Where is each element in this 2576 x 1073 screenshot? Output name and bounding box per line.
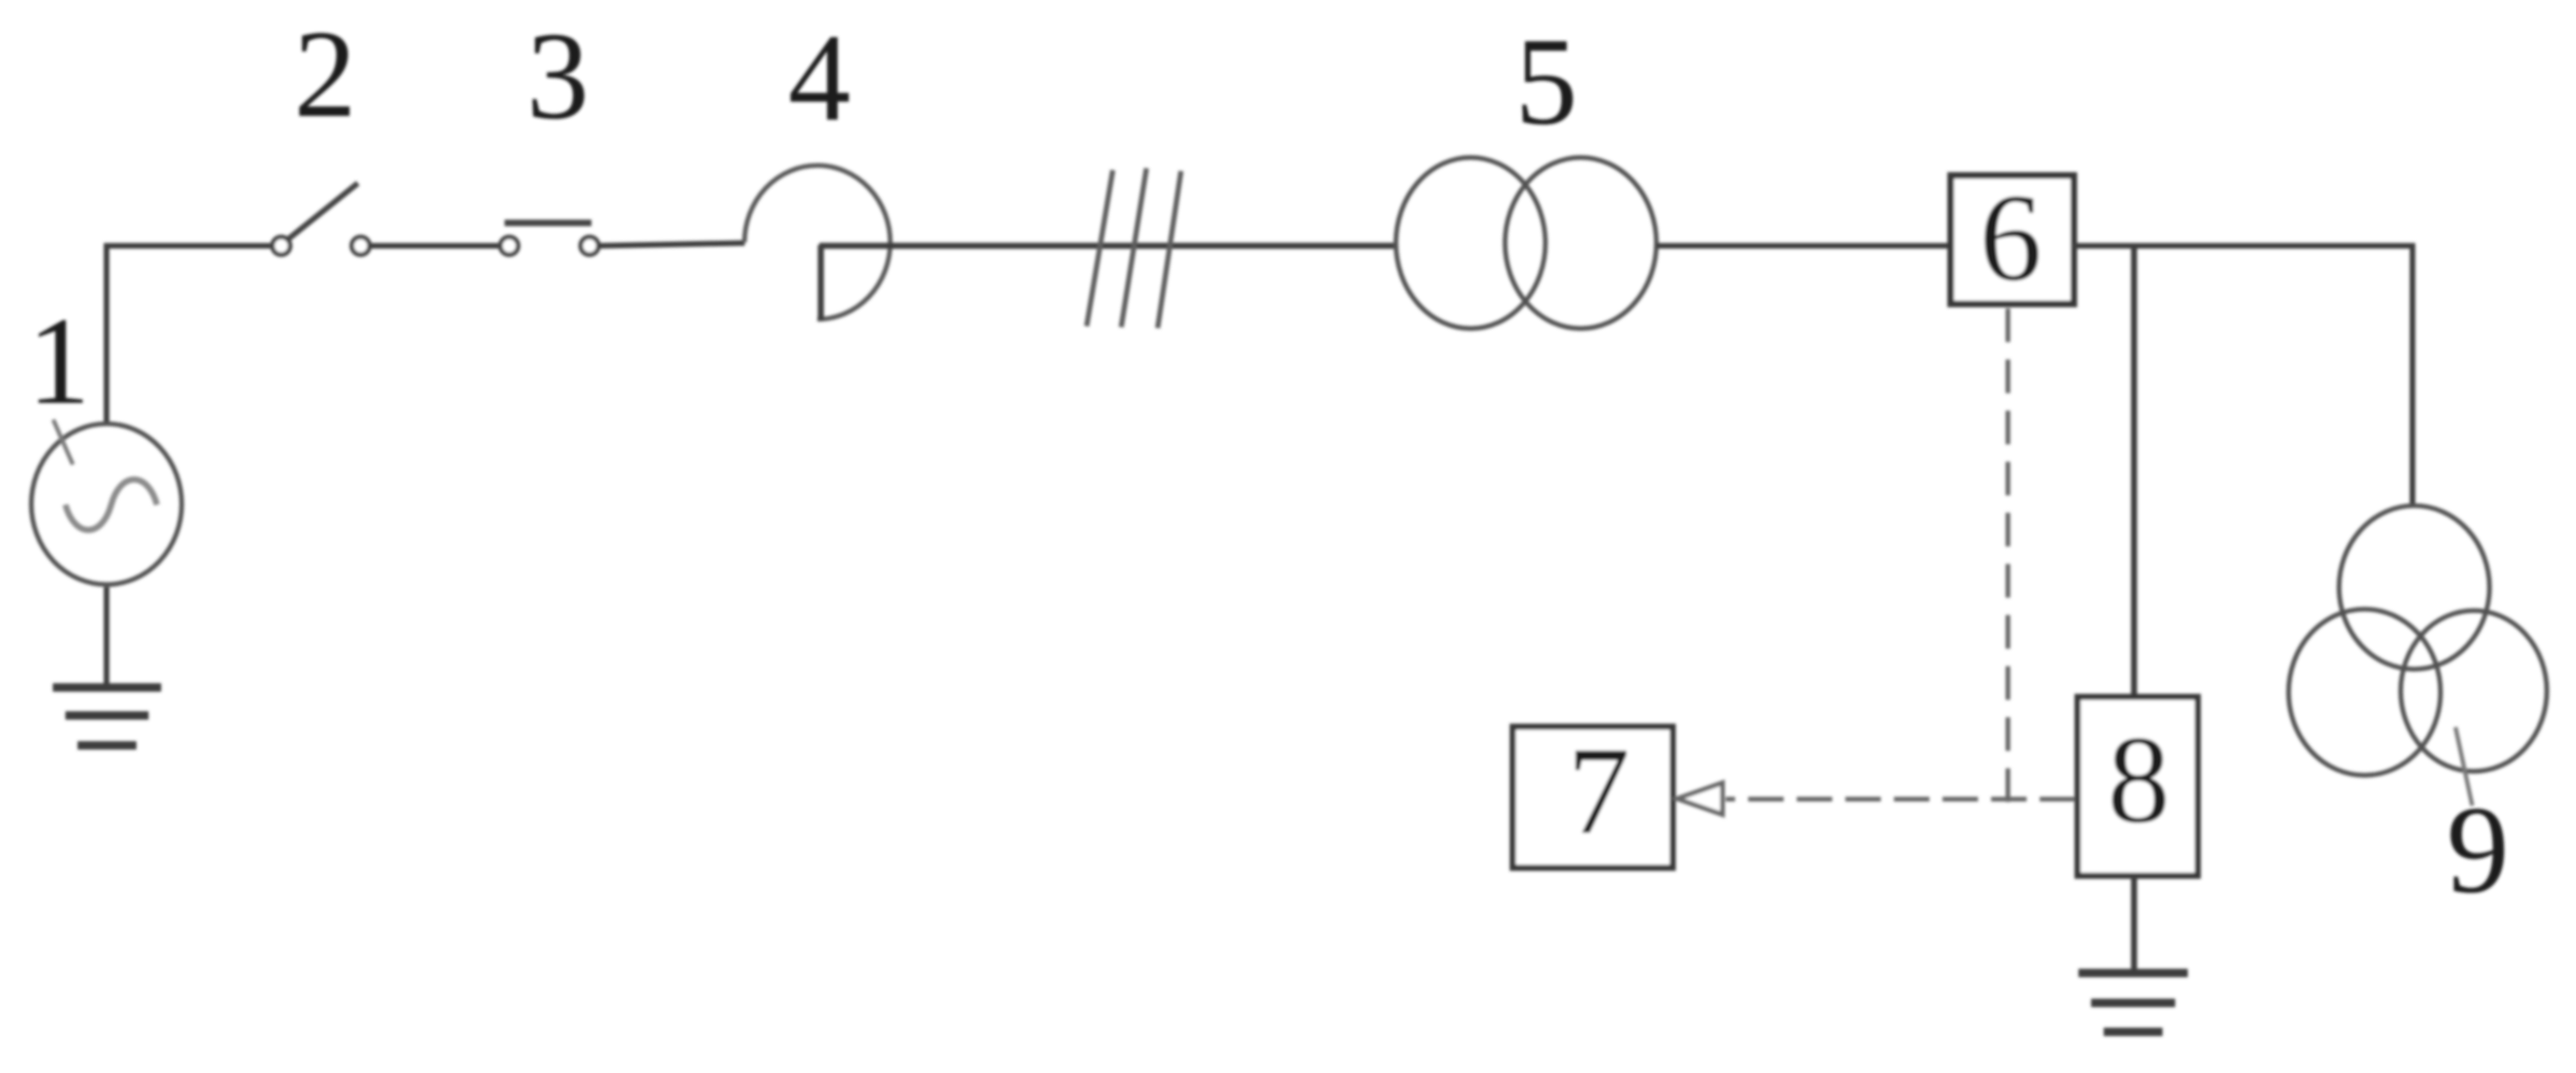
- transmission line slash 2: [1121, 168, 1146, 327]
- wire component 4 to transformer 5 (through line marks): [819, 243, 1394, 250]
- sine wave of source 1: [65, 479, 157, 530]
- svg-text:7: 7: [1568, 722, 1630, 860]
- wire source to ground: [104, 587, 109, 688]
- svg-text:5: 5: [1516, 12, 1578, 150]
- arrow head into box 7: [1677, 783, 1723, 815]
- svg-text:6: 6: [1980, 168, 2042, 307]
- wire switch 3 to component 4: [599, 243, 745, 246]
- ground (left): [53, 688, 162, 746]
- switch 3 (breaker): [501, 237, 599, 255]
- ground (under box 8): [2079, 973, 2188, 1032]
- transformer 5 secondary winding: [1505, 158, 1657, 329]
- transformer 5 primary winding: [1396, 158, 1545, 329]
- svg-text:1: 1: [28, 292, 91, 430]
- transmission line slash 1: [1087, 170, 1113, 326]
- svg-text:4: 4: [789, 8, 851, 147]
- transformer 9 top winding: [2339, 506, 2489, 669]
- svg-text:3: 3: [527, 7, 590, 145]
- component 4 inner lines: [818, 245, 824, 321]
- switch 2 (disconnector): [273, 237, 370, 255]
- AC source 1: [32, 423, 182, 584]
- svg-text:9: 9: [2447, 780, 2510, 919]
- transformer 9 bottom-left winding: [2288, 609, 2441, 776]
- dashed control line vertical (from box 6): [2006, 308, 2011, 802]
- svg-text:2: 2: [294, 5, 357, 143]
- blade of switch 2: [287, 183, 358, 240]
- leader line of label 1: [53, 420, 73, 465]
- component 4 (wave trap) arc: [745, 165, 890, 320]
- svg-text:8: 8: [2108, 710, 2170, 849]
- leader line of label 9: [2455, 727, 2472, 806]
- wire switch 2 to switch 3: [370, 243, 501, 249]
- wire transformer 5 to box 6: [1657, 243, 1951, 249]
- wire junction down to box 8: [2131, 246, 2138, 699]
- wire source to switch 2: [107, 246, 271, 422]
- bar of switch 3: [505, 220, 591, 226]
- dashed control line horizontal (to box 8): [1726, 797, 2075, 802]
- wire box 6 to corner and down to transformer 9: [2072, 246, 2412, 505]
- box 8: [2078, 697, 2199, 876]
- wire box 8 to ground: [2131, 874, 2138, 973]
- transformer 9 bottom-right winding: [2400, 610, 2546, 771]
- box 6: [1951, 176, 2074, 305]
- transmission line slash 3: [1158, 171, 1181, 328]
- box 7: [1513, 727, 1672, 868]
